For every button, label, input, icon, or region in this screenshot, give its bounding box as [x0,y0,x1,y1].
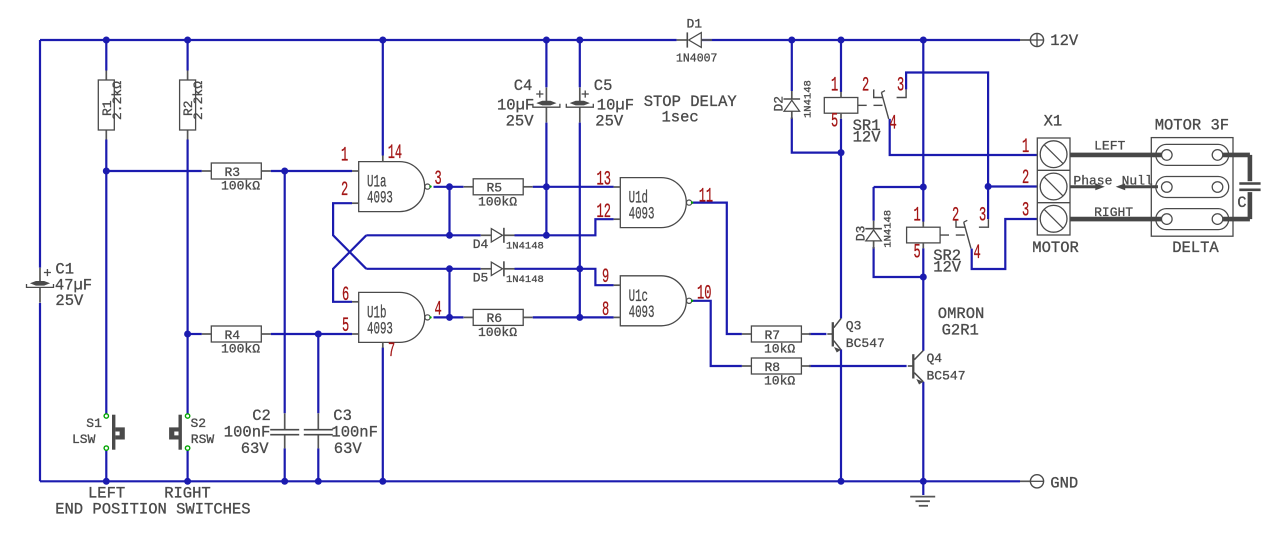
wire Q4 emitter to GND rail and ground symbol [922,382,924,495]
resistor R5 100k [464,179,533,210]
svg-text:14: 14 [388,141,402,164]
capacitor C (motor run cap) with thick leads [1223,155,1261,219]
wire D2 anode down to SR1 pin5 node [792,118,841,153]
svg-text:4093: 4093 [367,320,393,339]
pin number 4 (SR2) [974,241,981,264]
svg-text:5: 5 [914,241,921,264]
svg-text:2: 2 [341,178,348,201]
junction U1b output / R6 [446,314,453,321]
svg-text:100nF: 100nF [331,424,378,442]
junction R3 output node [281,168,288,175]
svg-text:3: 3 [897,74,904,97]
transistor Q4 BC547 [908,351,966,385]
wire +12V top rail right segment (D1 cathode to 12V symbol) [701,39,1020,41]
pin number 3 (U1a out) [435,167,442,190]
svg-text:BC547: BC547 [846,336,885,351]
wire R1 branch: top rail to R1 [105,40,107,71]
junctions on +12V top rail [103,37,927,44]
svg-text:RSW: RSW [191,432,215,447]
svg-text:C5: C5 [594,77,613,95]
svg-text:1sec: 1sec [662,109,699,127]
svg-text:63V: 63V [334,440,363,458]
pin number 3 (SR2) [979,204,986,227]
svg-text:6: 6 [342,283,349,306]
wire R4 row: R2 node to R4 and on to U1b pin 5 [188,333,352,335]
wire GND bottom rail [40,480,1020,482]
svg-text:4: 4 [435,298,442,321]
wire U1a output branch down to D4 anode row [448,187,450,236]
svg-text:2.2kΩ: 2.2kΩ [191,81,206,120]
svg-text:3: 3 [435,167,442,190]
svg-text:R6: R6 [487,311,503,326]
arrow Null toward motor V1 [1116,173,1158,190]
junction SR1 pin5 / D2 [838,149,845,156]
svg-text:8: 8 [602,298,609,321]
wire D4 row: cross-couple node to D4 anode [366,234,480,236]
op-amp U1a NAND 4093 [352,156,432,212]
wire node A vertical: R3 output down to C2 [284,171,286,413]
svg-text:Null: Null [1122,173,1153,188]
label END POSITION SWITCHES [55,501,250,519]
svg-text:2: 2 [862,74,869,97]
pin number 1 (U1a) [341,144,348,167]
svg-text:100kΩ: 100kΩ [221,179,260,194]
wire R3 row: node A to R3 and on to U1a pin 1 [106,170,352,172]
wire SR2 node to D3 top [874,187,924,221]
wire D4 cathode to C4 node and jog up to U1d pin 12 [515,219,614,235]
svg-text:100kΩ: 100kΩ [478,325,517,340]
svg-text:RIGHT: RIGHT [1094,205,1133,220]
pin number 10 (U1c out) [697,282,711,305]
capacitor C2 100nF [224,407,299,458]
svg-text:D3: D3 [853,226,868,242]
pin number 4 (SR1) [890,112,897,135]
wire U1d output pin 11 down to R7 [692,203,742,334]
pin number 2 (SR1) [862,74,869,97]
wire S1 bottom to GND rail [105,451,107,482]
pin number 5 (U1b) [342,314,349,337]
pin number 14 (U1a) [388,141,402,164]
svg-text:4093: 4093 [629,303,655,322]
junction phase column / X1 pin2 [985,183,992,190]
capacitor C1 47uF electrolytic [27,261,93,310]
svg-text:1: 1 [1022,135,1029,158]
resistor R1 2.2k [98,71,125,140]
junction D5 anode row [446,265,453,272]
wire U1c output pin 10 down to R8 [692,301,742,366]
wire R8 to Q4 base [809,365,907,367]
svg-text:BC547: BC547 [927,369,966,384]
svg-text:R3: R3 [225,165,241,180]
ground symbol below Q4 emitter [910,497,935,506]
svg-text:1: 1 [341,144,348,167]
svg-text:Q3: Q3 [846,319,862,334]
diode D5 1N4148 [473,261,544,286]
svg-text:3: 3 [1022,199,1029,222]
wire SR2 pin4 to X1 pin3 (motor RIGHT feed) [972,219,1038,269]
wire C2 to GND rail [284,448,286,481]
svg-text:MOTOR: MOTOR [1032,239,1079,257]
svg-text:MOTOR 3F: MOTOR 3F [1155,117,1229,135]
svg-text:25V: 25V [55,292,84,310]
wire D3 bottom to SR2 pin5 node [874,247,924,277]
op-amp U1c NAND 4093 [614,276,694,326]
svg-text:+: + [581,88,589,104]
wire U1a output to R5 [434,186,464,188]
junction R6 / C5 / pin8 [576,314,583,321]
svg-text:X1: X1 [1044,113,1063,131]
junction U1a output / R5 [446,183,453,190]
svg-text:9: 9 [602,265,609,288]
svg-text:12V: 12V [933,259,962,277]
svg-text:2: 2 [952,204,959,227]
capacitor C3 100nF [304,407,378,458]
svg-text:12V: 12V [1050,32,1079,50]
svg-text:13: 13 [597,168,611,191]
switch S2 RSW (right end switch) [169,414,214,451]
wire SR1 pin3 loop over to phase column [906,73,988,187]
svg-text:100kΩ: 100kΩ [221,342,260,357]
wire D2 branch from +12V rail [791,40,793,91]
switch S1 LSW (left end switch) [72,414,125,451]
wire R5 output to U1d pin 13 [533,186,614,188]
svg-text:10: 10 [697,282,711,305]
wire R4 output down to C3 [317,334,319,413]
resistor R3 100k [202,163,271,194]
arrow Phase from X1-2 [1070,173,1112,190]
wire SR1 pin4 to X1 pin1 (motor LEFT feed) [890,119,1038,155]
motor terminal block MOTOR 3F (delta) [1151,117,1233,258]
junction D4 anode row [446,232,453,239]
svg-text:4093: 4093 [367,189,393,208]
pin number 12 (U1d) [597,200,611,223]
relay SR2 coil and contacts [907,219,989,276]
svg-text:3: 3 [979,204,986,227]
wire left supply rail (C1 down to bottom rail) [39,303,41,481]
svg-text:D1: D1 [687,17,703,32]
svg-text:R4: R4 [225,328,241,343]
svg-text:C2: C2 [252,407,271,425]
svg-text:25V: 25V [595,113,624,131]
junction R5 / C4 / pin13 [543,183,550,190]
pin number 9 (U1c) [602,265,609,288]
svg-text:R7: R7 [765,328,781,343]
svg-text:GND: GND [1050,475,1078,493]
diode D2 1N4148 (flyback for SR1) [772,80,815,119]
pin number 6 (U1b) [342,283,349,306]
pin number 3 (X1) [1022,199,1029,222]
junctions on GND bottom rail [103,478,927,485]
svg-text:5: 5 [342,314,349,337]
svg-text:S2: S2 [191,416,207,431]
svg-text:D5: D5 [473,271,489,286]
pin number 4 (U1b out) [435,298,442,321]
svg-text:LSW: LSW [72,432,96,447]
wire U1b output to R6 [434,316,464,318]
wire phase column down to SR2 pin3 [987,187,989,220]
wire SR1 coil pin5 node down to Q3 collector [840,119,842,319]
capacitor C4 10uF electrolytic [497,77,560,130]
pin number 1 (SR2) [914,204,921,227]
svg-text:LEFT: LEFT [1094,139,1125,154]
pin number 5 (SR2) [914,241,921,264]
pin number 2 (U1a) [341,178,348,201]
pin number 7 (U1b) [388,339,395,362]
wire U1b pin 7 to GND rail [382,348,384,482]
connector X1 screw terminal block [1032,113,1079,258]
svg-text:4: 4 [890,112,897,135]
thick wire RIGHT phase (X1-3 to motor W1) [1070,205,1161,220]
svg-text:25V: 25V [506,113,535,131]
wire R7 to Q3 base [809,333,827,335]
svg-text:1N4148: 1N4148 [883,210,895,248]
svg-text:DELTA: DELTA [1172,239,1219,257]
svg-text:D2: D2 [772,96,787,112]
thick wire LEFT phase (X1-1 to motor U1) [1070,139,1161,155]
svg-text:C4: C4 [514,77,533,95]
svg-text:D4: D4 [473,237,489,252]
svg-text:63V: 63V [241,440,270,458]
diode D1 1N4007 [676,17,717,66]
junction SR2 coil top / D3 / +12V [920,184,927,191]
transistor Q3 BC547 [827,319,885,353]
svg-text:G2R1: G2R1 [942,322,979,340]
wire C5 branch: top rail through C5 to D5/R6 rows [579,40,581,317]
svg-text:4: 4 [974,241,981,264]
supply symbol +12V [1020,32,1079,50]
wire SR2 coil pin5 to node and down to Q4 collector [922,248,924,350]
wire +12V top rail left segment (from left rail to D1 anode) [40,39,677,41]
svg-text:C3: C3 [333,407,352,425]
svg-text:1N4148: 1N4148 [506,241,544,253]
wire phase node to X1 pin2 [988,185,1038,187]
wire C3 to GND rail [317,448,319,481]
relay SR1 coil and contacts [824,89,906,146]
resistor R2 2.2k [180,71,207,140]
wire U1a pin 14 to +12V rail [382,40,384,156]
junction D4 cathode / C4 [543,232,550,239]
pin number 5 (SR1) [831,110,838,133]
svg-text:2.2kΩ: 2.2kΩ [110,81,125,120]
svg-text:10kΩ: 10kΩ [764,374,795,389]
op-amp U1d NAND 4093 [614,178,694,228]
pin number 3 (SR1) [897,74,904,97]
svg-text:5: 5 [831,110,838,133]
resistor R4 100k [202,326,271,357]
capacitor C5 10uF electrolytic [566,77,634,130]
wire U1b pin 6 cross-coupling to D4 row [333,235,366,301]
svg-text:1: 1 [914,204,921,227]
svg-text:+: + [536,88,544,104]
svg-text:12V: 12V [853,129,882,147]
svg-text:R8: R8 [765,360,781,375]
resistor R6 100k [464,309,533,340]
label STOP DELAY [644,93,738,127]
wire +12V rail down to SR2 coil node [922,40,924,187]
wire SR2 coil pin1 from node [922,187,924,222]
svg-text:1N4148: 1N4148 [803,80,815,118]
svg-text:10kΩ: 10kΩ [764,342,795,357]
svg-text:2: 2 [1022,166,1029,189]
pin number 2 (X1) [1022,166,1029,189]
pin number 2 (SR2) [952,204,959,227]
svg-text:OMRON: OMRON [938,305,985,323]
pin number 8 (U1c) [602,298,609,321]
wire SR1 coil pin1 to +12V rail [840,40,842,92]
pin number 11 (U1d out) [699,185,713,208]
svg-text:1N4007: 1N4007 [676,53,717,66]
junction D5 cathode / C5 [576,265,583,272]
wire D5 cathode to C5 node and jog down to U1c pin 9 [515,269,614,285]
wire S2 bottom to GND rail [187,451,189,482]
junction R4 output node [315,331,322,338]
wire U1b output branch up to D5 anode row [448,269,450,318]
svg-text:7: 7 [388,339,395,362]
supply symbol GND (right) [1020,475,1078,493]
label OMRON G2R1 [938,305,985,340]
junction R2/R4 node [184,331,191,338]
op-amp U1b NAND 4093 [352,292,432,347]
svg-text:4093: 4093 [629,205,655,224]
svg-text:S1: S1 [86,416,102,431]
diode D4 1N4148 [473,228,544,253]
svg-text:R5: R5 [487,181,503,196]
svg-text:+: + [43,266,51,282]
svg-text:END POSITION SWITCHES: END POSITION SWITCHES [55,501,250,519]
wire Q3 emitter to GND rail [840,350,842,482]
wire R1 to R3-row node and down to switch S1 [105,140,107,414]
wire left supply rail (top-left corner down to C1) [39,40,41,268]
svg-text:C: C [1237,194,1246,212]
diode D3 1N4148 (flyback for SR2) [853,210,894,249]
pin number 13 (U1d) [597,168,611,191]
resistor R7 10k [742,326,811,357]
svg-text:100kΩ: 100kΩ [478,194,517,209]
label LEFT (end switch) [88,485,125,503]
svg-text:1N4148: 1N4148 [506,274,544,286]
pin number 1 (X1) [1022,135,1029,158]
svg-text:100nF: 100nF [224,424,271,442]
wire U1a pin 2 cross-coupling to D5 row [333,203,366,269]
svg-text:Phase: Phase [1073,173,1112,188]
svg-text:1: 1 [831,74,838,97]
wire C4 branch: top rail through C4 to R5/D4 rows [545,40,547,235]
label RIGHT (end switch) [164,485,211,503]
resistor R8 10k [742,358,811,389]
svg-text:12: 12 [597,200,611,223]
pin number 1 (SR1) [831,74,838,97]
svg-text:Q4: Q4 [927,351,943,366]
junction SR2 coil bottom / D3 / Q4 collector [920,274,927,281]
wire R2 branch: top rail to R2 [187,40,189,71]
junction node A (R1/R3) [103,168,110,175]
wire R6 output to U1c pin 8 [533,316,614,318]
wire D5 row: cross-couple node to D5 anode [366,268,480,270]
svg-text:11: 11 [699,185,713,208]
wire R2 to R4-row node and down to switch S2 [187,140,189,414]
